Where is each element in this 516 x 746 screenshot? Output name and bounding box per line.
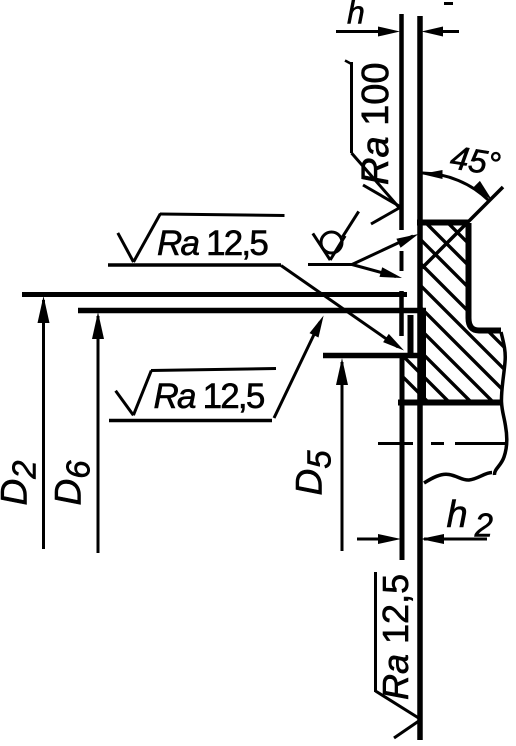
svg-text:Ra 12,5: Ra 12,5 xyxy=(157,224,267,263)
dimension h2 right shaft xyxy=(424,538,487,541)
Ra 100 symbol tail xyxy=(345,61,352,65)
flange top face xyxy=(417,220,468,226)
lower Ra 12,5 leader xyxy=(274,322,320,418)
bottom wavy break xyxy=(424,473,492,484)
wall right edge xyxy=(417,16,423,740)
upper Ra 12,5 leader xyxy=(281,266,398,348)
chamfer 45 line xyxy=(422,187,503,268)
fork prong down arrow xyxy=(380,267,403,278)
dimension h2 left arrow xyxy=(378,534,401,544)
lower Ra 12,5 polka xyxy=(109,419,272,423)
lower Ra 12,5 short leg xyxy=(116,391,134,416)
center line xyxy=(378,442,507,445)
svg-text:Ra 100: Ra 100 xyxy=(355,62,397,185)
upper Ra 12,5 shelf xyxy=(160,214,285,216)
svg-text:Ra 12,5: Ra 12,5 xyxy=(154,377,264,416)
right break line xyxy=(494,332,506,475)
wall left edge hidden dash xyxy=(400,251,404,271)
no-removal symbol long leg xyxy=(342,211,358,237)
dimension h arrow right xyxy=(422,27,444,37)
dimension h2 left shaft xyxy=(357,538,380,541)
wall left edge lower xyxy=(400,353,405,560)
flange right edge with fillet xyxy=(469,223,480,331)
wall left edge mid xyxy=(399,291,404,336)
fork prong up arrow xyxy=(396,234,418,248)
fork prong up xyxy=(352,236,413,265)
dimension D6 line xyxy=(97,316,100,553)
svg-text:45°: 45° xyxy=(448,138,503,182)
svg-text:h: h xyxy=(347,0,365,31)
Ra 100 arrow wing down xyxy=(371,208,400,225)
step vertical xyxy=(420,312,426,402)
dimension D2 arrow xyxy=(38,296,50,323)
lower Ra 12,5 long leg xyxy=(133,371,151,416)
surface line B xyxy=(78,308,426,314)
lower Ra 12,5 shelf xyxy=(151,369,276,371)
inner bar xyxy=(408,315,414,354)
Ra 100 symbol shelf xyxy=(350,62,353,153)
upper Ra 12,5 leader arrow xyxy=(383,334,404,351)
upper Ra 12,5 polka xyxy=(108,263,281,267)
bottom Ra 12,5 short leg xyxy=(394,720,421,739)
45 arc arrow right xyxy=(473,181,492,200)
flange bottom face xyxy=(398,400,501,406)
dimension D5 arrow xyxy=(336,358,348,385)
step bottom face xyxy=(479,328,501,334)
no-removal symbol circle xyxy=(321,232,342,253)
top right dash xyxy=(444,2,453,5)
hatching xyxy=(395,170,515,489)
svg-text:Ra 12,5: Ra 12,5 xyxy=(375,574,416,700)
no-removal symbol left leg xyxy=(313,233,330,260)
dimension h2 right arrow xyxy=(421,534,445,544)
dimension D6 arrow xyxy=(92,312,104,339)
no-removal symbol right leg xyxy=(330,236,345,260)
surface line C xyxy=(323,353,420,359)
fork leader horizontal xyxy=(308,263,352,266)
lower Ra 12,5 leader arrow xyxy=(310,316,324,338)
upper Ra 12,5 short leg xyxy=(118,233,134,262)
dimension D5 line xyxy=(341,362,344,551)
bottom Ra 12,5 long leg xyxy=(376,691,422,720)
dimension h line left xyxy=(336,30,390,33)
dimension D2 line xyxy=(42,300,45,549)
fork prong down xyxy=(352,265,396,277)
surface line A xyxy=(22,292,407,297)
45 arc arrow left xyxy=(422,170,443,179)
Ra 100 symbol long leg xyxy=(352,153,400,208)
bottom Ra 12,5 shelf xyxy=(374,572,377,692)
dimension h line right xyxy=(432,30,459,33)
Ra 100 arrow wing up xyxy=(363,185,400,207)
45 degree arc xyxy=(423,173,490,201)
wall left edge upper xyxy=(399,14,404,230)
dimension h arrow left xyxy=(378,27,400,37)
upper Ra 12,5 long leg xyxy=(134,214,161,262)
